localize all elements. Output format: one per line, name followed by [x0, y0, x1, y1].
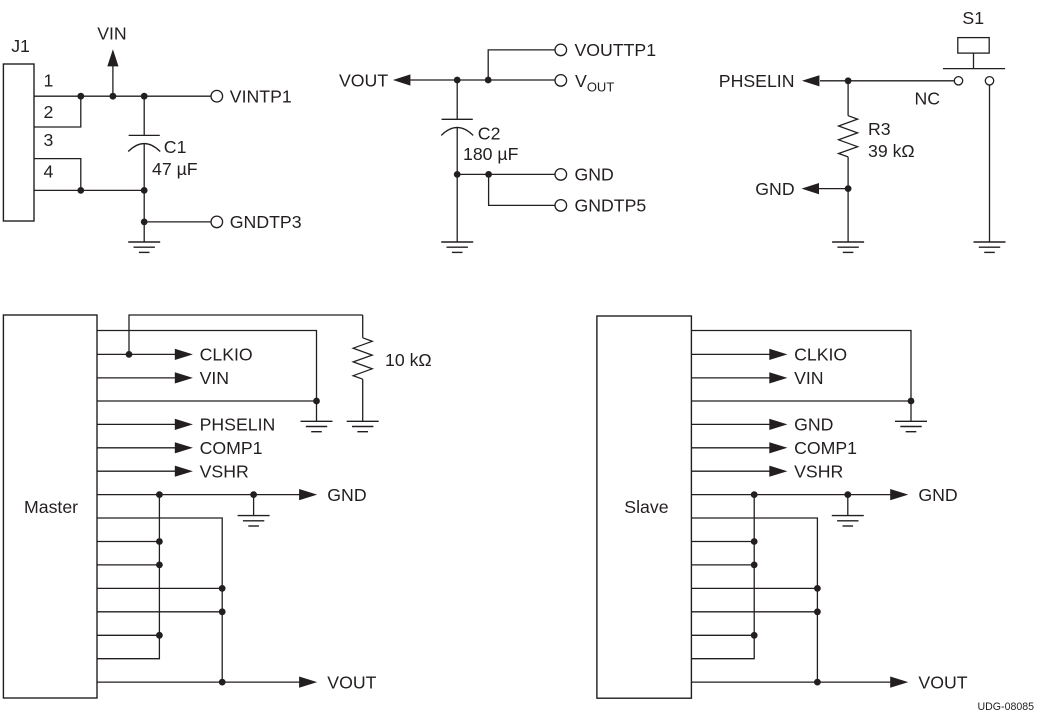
- ground below 10 kOhm: [347, 421, 379, 431]
- wire VOUTTP1 branch: [488, 50, 555, 80]
- test point VINTP1: [211, 90, 223, 102]
- wire master VIN: [97, 377, 175, 379]
- wire master GND rail: [97, 494, 300, 496]
- svg-text:4: 4: [44, 161, 54, 181]
- ground below slave rail: [895, 401, 927, 432]
- wire PHSELIN to switch: [820, 80, 954, 82]
- junction C2 top: [454, 77, 461, 84]
- wire master CLKIO: [97, 353, 175, 355]
- wire pin4: [34, 189, 144, 191]
- wire pin1 to VINTP1: [34, 95, 211, 97]
- svg-text:VINTP1: VINTP1: [230, 87, 292, 107]
- svg-text:VIN: VIN: [794, 368, 824, 388]
- switch S1 button and bar: [943, 38, 1005, 69]
- junction GND left: [156, 491, 163, 498]
- junction R3 bottom: [845, 185, 852, 192]
- svg-text:CLKIO: CLKIO: [200, 345, 253, 365]
- test point GNDTP3: [211, 216, 223, 228]
- svg-text:1: 1: [44, 70, 54, 90]
- svg-text:GND: GND: [327, 485, 366, 505]
- junction VOUT: [219, 679, 226, 686]
- ground stub below slave GND: [832, 495, 864, 526]
- wire R3 to ground: [847, 189, 849, 242]
- wire master VSHR: [97, 470, 175, 472]
- svg-text:NC: NC: [915, 89, 941, 109]
- wire slave stub 2: [691, 564, 754, 566]
- svg-text:COMP1: COMP1: [200, 438, 263, 458]
- svg-text:S1: S1: [962, 8, 984, 28]
- wire master stub 4: [97, 611, 222, 613]
- arrow slave VSHR: [769, 466, 787, 477]
- svg-text:PHSELIN: PHSELIN: [200, 415, 276, 435]
- wire master PHSELIN: [97, 423, 175, 425]
- junction stub 4: [219, 608, 226, 615]
- svg-text:VIN: VIN: [200, 368, 230, 388]
- svg-text:VOUTTP1: VOUTTP1: [575, 40, 657, 60]
- svg-text:PHSELIN: PHSELIN: [719, 71, 795, 91]
- svg-text:VOUT: VOUT: [918, 672, 967, 692]
- ground below R3: [832, 242, 864, 252]
- junction pin2/pin1: [77, 93, 84, 100]
- junction C2 bottom: [454, 171, 461, 178]
- wire C1 to GNDTP3 node: [143, 190, 145, 222]
- ground below S1: [974, 242, 1006, 252]
- svg-text:VOUT: VOUT: [339, 70, 388, 90]
- PHSELIN arrow (left): [802, 75, 820, 86]
- svg-text:GND: GND: [575, 165, 614, 185]
- svg-text:39 kΩ: 39 kΩ: [868, 141, 915, 161]
- svg-text:VSHR: VSHR: [794, 462, 843, 482]
- test point VOUT: [555, 75, 567, 87]
- junction stub 5: [156, 632, 163, 639]
- connector J1: [3, 64, 34, 221]
- power VIN arrow: [107, 49, 118, 96]
- wire slave COMP1: [691, 447, 769, 449]
- wire GND to R3: [818, 188, 848, 190]
- arrow COMP1: [175, 442, 193, 453]
- ground stub below master GND: [238, 495, 270, 526]
- junction slave stub 1: [751, 538, 758, 545]
- junction stub 3: [219, 585, 226, 592]
- svg-text:GND: GND: [755, 179, 794, 199]
- ground below C2: [441, 242, 473, 252]
- arrow master VOUT: [299, 677, 317, 688]
- wire master stub 3: [97, 587, 222, 589]
- resistor 10 kOhm: [353, 315, 372, 421]
- junction stub 2: [156, 562, 163, 569]
- wire slave stub 4: [691, 611, 817, 613]
- arrow slave GND: [890, 489, 908, 500]
- junction slave stub 2: [751, 562, 758, 569]
- wire slave VSHR: [691, 470, 769, 472]
- wire master stub 5: [97, 634, 159, 636]
- junction slave stub 3: [814, 585, 821, 592]
- wire to GNDTP3: [144, 221, 211, 223]
- junction slave VOUT: [814, 679, 821, 686]
- ground below master rail: [301, 401, 333, 432]
- arrow slave GND pin: [769, 419, 787, 430]
- wire slave VOUT rail: [691, 681, 891, 683]
- arrow slave VOUT: [890, 677, 908, 688]
- junction VIN: [110, 93, 117, 100]
- block Master: [3, 315, 97, 698]
- wire GND rail: [457, 173, 555, 175]
- wire slave CLKIO: [691, 353, 769, 355]
- svg-text:180 µF: 180 µF: [463, 144, 519, 164]
- wire master pin2 to ground drop: [97, 331, 317, 402]
- svg-text:3: 3: [44, 130, 54, 150]
- wire slave stub 1: [691, 541, 754, 543]
- arrow VSHR: [175, 466, 193, 477]
- wire slave pin1 to ground drop: [691, 331, 911, 402]
- VOUT arrow (left): [393, 74, 411, 85]
- svg-text:GNDTP5: GNDTP5: [575, 196, 647, 216]
- wire master stub 2: [97, 564, 159, 566]
- junction GNDTP5 branch: [485, 171, 492, 178]
- arrow slave CLKIO: [769, 349, 787, 360]
- svg-text:VOUT: VOUT: [575, 71, 614, 95]
- junction slave stub 4: [814, 608, 821, 615]
- S1 contact right: [985, 77, 993, 85]
- junction slave stub 5: [751, 632, 758, 639]
- wire pin3 jog down: [34, 159, 81, 191]
- junction VOUTTP1 branch: [485, 77, 492, 84]
- junction slave ground rail: [908, 398, 915, 405]
- wire slave sense vertical: [691, 495, 754, 659]
- svg-text:GND: GND: [918, 485, 957, 505]
- junction stub 1: [156, 538, 163, 545]
- wire master VOUT rail: [97, 681, 300, 683]
- test point GND: [555, 169, 567, 181]
- junction R3 top: [845, 77, 852, 84]
- svg-text:GND: GND: [794, 415, 833, 435]
- wire GNDTP5 branch: [489, 174, 555, 205]
- svg-text:47 µF: 47 µF: [152, 159, 198, 179]
- junction C1 bottom: [141, 187, 148, 194]
- arrow VIN: [175, 372, 193, 383]
- arrow slave VIN: [769, 372, 787, 383]
- svg-text:GNDTP3: GNDTP3: [230, 212, 302, 232]
- svg-text:C2: C2: [478, 123, 501, 143]
- junction pin3/pin4: [77, 187, 84, 194]
- ground below C1: [128, 222, 160, 253]
- wire master stub 1: [97, 541, 159, 543]
- wire slave GND rail: [691, 494, 891, 496]
- arrow CLKIO: [175, 349, 193, 360]
- test point VOUTTP1: [555, 44, 567, 56]
- junction slave GND left: [751, 491, 758, 498]
- junction GNDTP3: [141, 219, 148, 226]
- arrow slave COMP1: [769, 442, 787, 453]
- wire VOUT rail: [410, 79, 555, 81]
- svg-text:J1: J1: [11, 36, 30, 56]
- junction C1 top: [141, 93, 148, 100]
- wire slave VIN: [691, 377, 769, 379]
- svg-text:C1: C1: [164, 137, 187, 157]
- svg-text:Master: Master: [24, 497, 78, 517]
- test point GNDTP5: [555, 200, 567, 212]
- svg-text:VOUT: VOUT: [327, 672, 376, 692]
- wire CLKIO pullup top: [129, 315, 363, 354]
- GND arrow (left): [802, 183, 820, 194]
- svg-text:VIN: VIN: [97, 24, 127, 44]
- svg-text:VSHR: VSHR: [200, 462, 249, 482]
- arrow master GND: [299, 489, 317, 500]
- svg-text:R3: R3: [868, 119, 891, 139]
- svg-text:COMP1: COMP1: [794, 438, 857, 458]
- junction master ground rail: [313, 398, 320, 405]
- wire slave ground rail: [691, 400, 911, 402]
- wire slave stub 5: [691, 634, 754, 636]
- wire slave stub 3: [691, 587, 817, 589]
- svg-text:CLKIO: CLKIO: [794, 345, 847, 365]
- junction slave GND ground stub: [844, 491, 851, 498]
- wire S1 to ground: [989, 85, 991, 242]
- wire C2 to ground: [456, 174, 458, 242]
- svg-text:2: 2: [44, 102, 54, 122]
- block Slave: [597, 316, 692, 698]
- svg-text:Slave: Slave: [624, 497, 668, 517]
- capacitor C1: [128, 96, 160, 190]
- svg-text:UDG-08085: UDG-08085: [978, 701, 1035, 713]
- wire master sense vertical: [97, 495, 159, 659]
- capacitor C2: [441, 80, 473, 174]
- junction GND ground stub: [250, 491, 257, 498]
- arrow PHSELIN: [175, 419, 193, 430]
- wire master feedback corner: [97, 518, 222, 682]
- S1 contact left: [954, 77, 962, 85]
- resistor R3: [839, 81, 858, 189]
- wire slave GND pin: [691, 423, 769, 425]
- wire pin2 jog up: [34, 96, 81, 127]
- svg-text:10 kΩ: 10 kΩ: [385, 350, 432, 370]
- wire slave feedback corner: [691, 518, 817, 682]
- junction CLKIO pullup: [126, 351, 133, 358]
- wire master pin4 ground rail: [97, 400, 317, 402]
- wire master COMP1: [97, 447, 175, 449]
